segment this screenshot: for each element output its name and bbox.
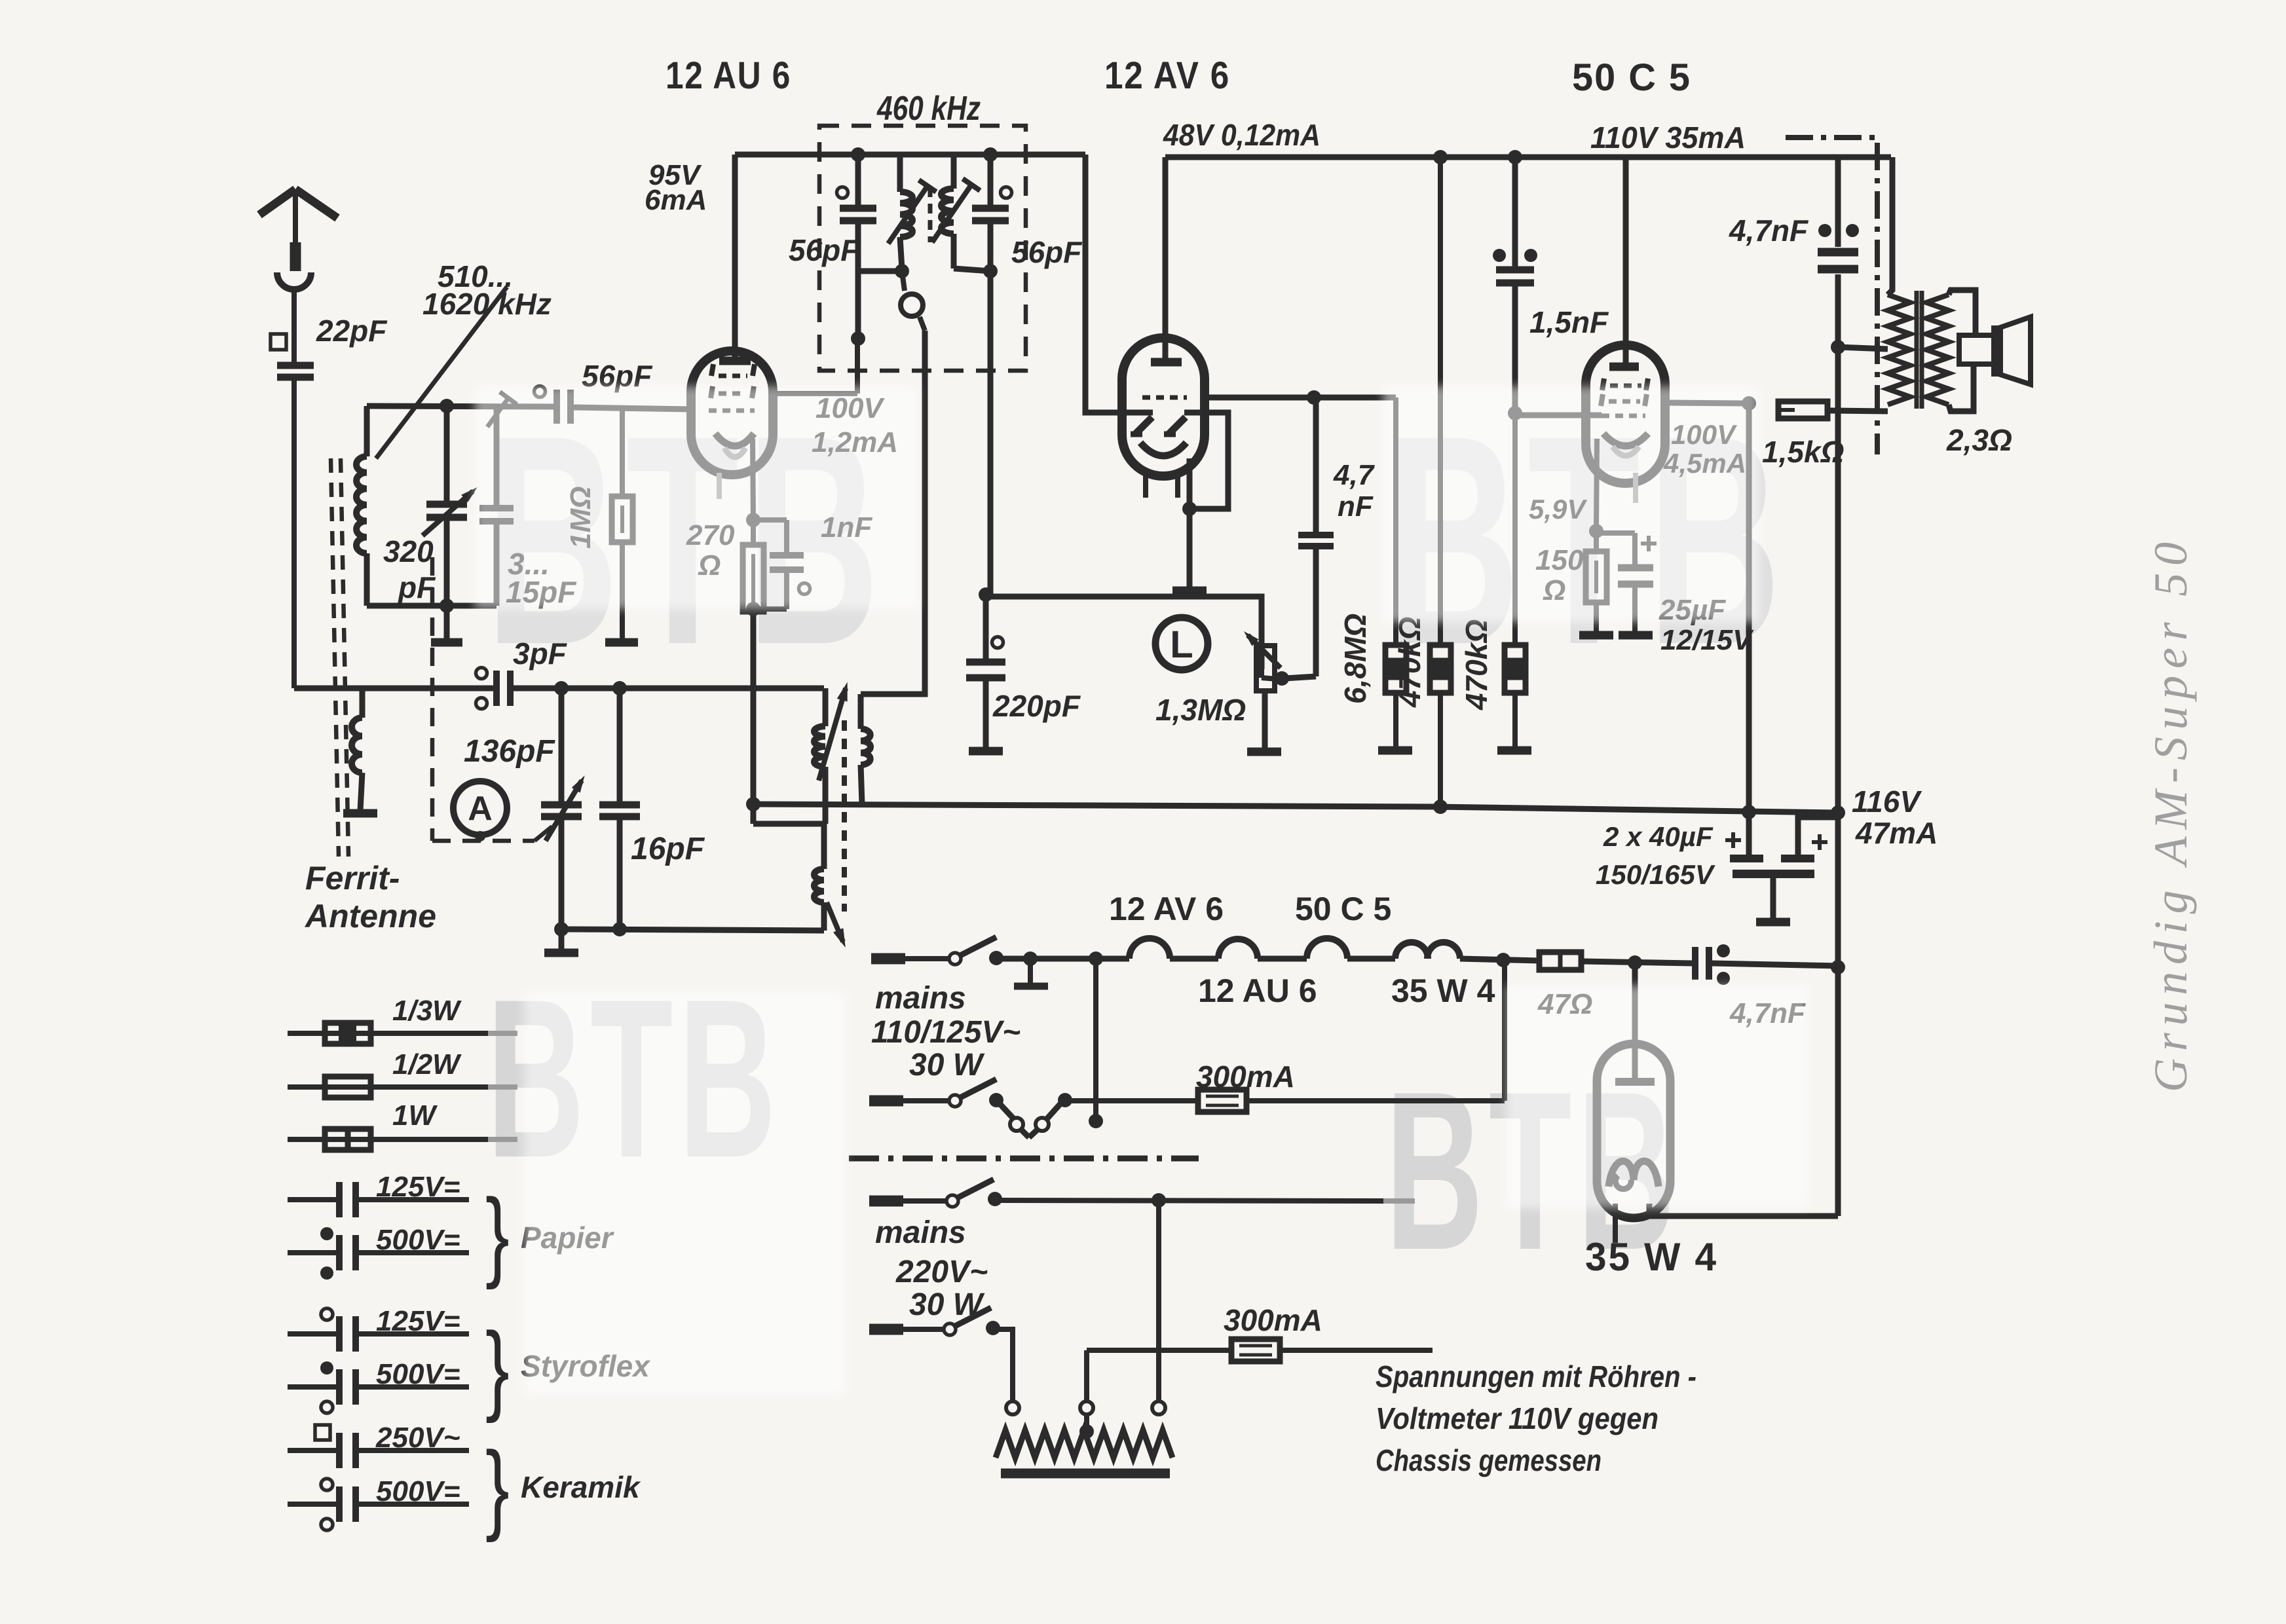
resistor 47 ohm bbox=[1539, 952, 1581, 970]
wire 4,7nF to volume wiper bbox=[1284, 676, 1316, 678]
switch 2 (mains fused) bbox=[869, 1096, 903, 1107]
wire screen to 1,5k feedback bbox=[1665, 403, 1749, 403]
wire AVC bus bbox=[753, 804, 1835, 813]
heater 12AV6 bbox=[1129, 938, 1170, 959]
ground (1M ohm) bbox=[605, 638, 638, 647]
legend capacitor 125V paper bbox=[288, 1197, 337, 1202]
wire mixer cathode to oscillator bbox=[751, 612, 757, 804]
svg-text:220V~: 220V~ bbox=[895, 1255, 988, 1289]
wire cathode to ground bbox=[1187, 458, 1193, 588]
junction (50C5 grid node) bbox=[1508, 406, 1522, 420]
junction (primary tap) bbox=[1831, 340, 1845, 354]
svg-text:Grundig AM-Super 50: Grundig AM-Super 50 bbox=[2145, 539, 2197, 1092]
svg-text:mains: mains bbox=[875, 1215, 966, 1250]
wire oscillator secondary to IF transformer bbox=[861, 331, 925, 694]
svg-text:460 kHz: 460 kHz bbox=[876, 90, 981, 128]
wire IF secondary bottom to detector load bbox=[988, 271, 994, 595]
svg-text:12/15V: 12/15V bbox=[1660, 624, 1754, 656]
ground (220pF) bbox=[969, 747, 1003, 756]
capacitor 16pF bbox=[612, 681, 627, 695]
capacitor 220pF (detector load) bbox=[979, 587, 993, 602]
ground (136pF) bbox=[544, 949, 578, 957]
tube 12AV6 envelope bbox=[1122, 338, 1205, 476]
scan light box bottom-right bbox=[1507, 986, 1808, 1208]
capacitor 4,7nF (tone) bbox=[1835, 157, 1841, 247]
capacitor 4,7nF (rectifier snubber) bbox=[1692, 947, 1698, 980]
legend capacitor 500V paper bbox=[288, 1250, 337, 1255]
svg-text:56pF: 56pF bbox=[1011, 235, 1083, 269]
svg-text:Antenne: Antenne bbox=[304, 898, 436, 934]
ferrite rod (dashed) bbox=[331, 458, 339, 857]
svg-text:1W: 1W bbox=[392, 1099, 438, 1132]
ground (320pF) bbox=[431, 638, 462, 647]
switch 1 (mains) bbox=[949, 953, 961, 965]
svg-text:300mA: 300mA bbox=[1224, 1303, 1322, 1337]
chassis divider dash-dot bbox=[849, 1156, 1199, 1162]
12AV6 heater stubs bbox=[1143, 476, 1148, 498]
wire 50C5 grid bbox=[1515, 413, 1602, 418]
mains terminal stub 1 bbox=[871, 953, 905, 965]
ground (volume pot) bbox=[1247, 748, 1281, 756]
svg-text:L: L bbox=[1170, 623, 1193, 666]
antenna symbol bbox=[259, 189, 295, 215]
adjustment symbol L bbox=[1155, 618, 1208, 670]
scan light box bottom-left bbox=[524, 992, 845, 1395]
watermark letters BTB bottom-left bbox=[487, 952, 782, 1205]
12AU6 heater bbox=[724, 448, 745, 457]
core adjust arrow (IF primary) bbox=[888, 186, 928, 244]
capacitor 3pF bbox=[493, 671, 500, 706]
junction (1,5nF top) bbox=[1508, 150, 1522, 164]
svg-text:300mA: 300mA bbox=[1196, 1060, 1295, 1094]
oscillator feedback coil bbox=[821, 824, 827, 869]
svg-text:35 W 4: 35 W 4 bbox=[1585, 1235, 1718, 1279]
resistor 470k ohm (screen feed) bbox=[1438, 157, 1443, 645]
wire B+ rail (12AU6 plate) bbox=[735, 152, 1085, 158]
svg-text:470kΩ: 470kΩ bbox=[1393, 617, 1427, 708]
svg-text:2,3Ω: 2,3Ω bbox=[1946, 423, 2012, 457]
wire 1,5k to primary bottom bbox=[1827, 411, 1888, 411]
wire RF tank top bbox=[367, 406, 554, 407]
pointer line 510...1620kHz bbox=[376, 287, 507, 458]
svg-text:6,8MΩ: 6,8MΩ bbox=[1338, 614, 1372, 704]
svg-text:110V 35mA: 110V 35mA bbox=[1590, 120, 1746, 155]
junction (chassis tick) bbox=[1023, 951, 1038, 966]
svg-text:220pF: 220pF bbox=[992, 689, 1081, 723]
svg-text:500V=: 500V= bbox=[376, 1475, 460, 1507]
junction (cathode / 270 ohm) bbox=[746, 513, 760, 527]
resistor 150 ohm (output cathode) bbox=[1594, 531, 1599, 551]
scan light box top-left bbox=[475, 386, 917, 609]
trimmer capacitor 3...15pF bbox=[494, 406, 500, 506]
wire fuse line bbox=[1065, 1098, 1198, 1103]
meter symbol A bbox=[453, 781, 507, 835]
fuse 300mA (110V) bbox=[1198, 1090, 1246, 1112]
ground (25uF) bbox=[1619, 631, 1653, 640]
legend resistor 1/3W bbox=[288, 1031, 488, 1036]
mains terminal stub 4 bbox=[869, 1324, 903, 1335]
capacitor 56pF (IF primary) bbox=[837, 187, 848, 198]
ferrite antenna primary coil bbox=[364, 406, 370, 456]
resistor 470k ohm (output grid leak) bbox=[1512, 413, 1518, 645]
core adjust arrow (oscillator) bbox=[819, 688, 846, 781]
wire 12AV6 grid to AVC network bbox=[1205, 395, 1314, 401]
IF transformer core (dashed) bbox=[928, 187, 933, 242]
junction (56pF left top) bbox=[851, 147, 865, 162]
capacitor 1,5nF bbox=[1512, 157, 1518, 267]
tube 35W4 envelope bbox=[1597, 1044, 1670, 1218]
output transformer primary bbox=[1888, 295, 1910, 405]
alignment point A dashed box bbox=[430, 557, 435, 841]
ground (6,8M) bbox=[1378, 747, 1412, 755]
wire pot to ground bbox=[1262, 691, 1268, 749]
svg-text:1/3W: 1/3W bbox=[392, 995, 462, 1027]
legend brace Papier bbox=[485, 1178, 510, 1290]
selector contacts bbox=[1006, 1401, 1019, 1414]
junction (voltage selector feed) bbox=[1089, 951, 1103, 966]
12AU6 grid g2 row (screen) bbox=[711, 386, 713, 398]
legend capacitor 500V ceramic bbox=[288, 1502, 337, 1507]
12AV6 plate bbox=[1163, 157, 1169, 358]
svg-text:48V 0,12mA: 48V 0,12mA bbox=[1163, 118, 1321, 152]
wire oscillator bottom (line B) bbox=[561, 929, 824, 931]
junction (50C5 cathode) bbox=[1589, 524, 1603, 538]
svg-text:}: } bbox=[485, 1431, 510, 1543]
svg-text:4,7: 4,7 bbox=[1333, 459, 1376, 491]
wire heater chain bbox=[996, 956, 1129, 962]
capacitor type marker square (antenna 22pF ceramic) bbox=[271, 334, 286, 350]
svg-text:mains: mains bbox=[875, 981, 966, 1016]
12AU6 grid g1 row (control) bbox=[709, 409, 755, 413]
wire selector mid to fuse line bbox=[1084, 1350, 1089, 1401]
svg-text:110/125V~: 110/125V~ bbox=[871, 1015, 1021, 1050]
dropper resistance element bbox=[1084, 1414, 1089, 1430]
junction (56pF right top) bbox=[983, 147, 998, 162]
35W4 cathode (filament) bbox=[1609, 1161, 1658, 1187]
legend resistor 1W bbox=[288, 1137, 488, 1142]
svg-text:1,5nF: 1,5nF bbox=[1529, 305, 1609, 339]
ground (ferrite secondary) bbox=[343, 809, 377, 818]
wire detector to volume pot bbox=[986, 597, 1262, 669]
svg-text:47mA: 47mA bbox=[1855, 816, 1938, 850]
electrolytic 2x40uF bbox=[1746, 812, 1752, 855]
12AV6 diode plates bbox=[1136, 417, 1152, 434]
50C5 heater bbox=[1613, 447, 1639, 456]
capacitor 4,7nF (detector filter) bbox=[1313, 397, 1319, 532]
junction (470k to AVC bus) bbox=[1433, 800, 1448, 814]
wire 220V upper bbox=[995, 1200, 1383, 1201]
legend capacitor 500V styroflex bbox=[288, 1384, 337, 1390]
svg-text:500V=: 500V= bbox=[376, 1358, 460, 1390]
core adjust arrow (IF secondary) bbox=[932, 185, 971, 242]
svg-text:50 C 5: 50 C 5 bbox=[1295, 891, 1391, 927]
wire IF secondary top to 12AV6 diode bbox=[1085, 155, 1153, 413]
wire to selector left bbox=[993, 1329, 1013, 1401]
capacitor 56pF (mixer grid coupling) bbox=[534, 386, 546, 397]
junction (selector right) bbox=[1152, 1193, 1166, 1208]
legend resistor 1/2W bbox=[288, 1084, 488, 1090]
svg-text:12 AU 6: 12 AU 6 bbox=[1198, 972, 1317, 1009]
junction (rectifier output) bbox=[1831, 960, 1845, 974]
wire RF ground bus (line A) bbox=[294, 686, 496, 692]
fuse 300mA (220V) bbox=[1231, 1339, 1280, 1361]
wire screen grid to 56pF junction bbox=[773, 391, 857, 396]
svg-text:50 C 5: 50 C 5 bbox=[1572, 56, 1691, 99]
12AU6 plate bbox=[732, 155, 738, 357]
svg-text:1,5kΩ: 1,5kΩ bbox=[1762, 435, 1844, 469]
legend capacitor 250V ceramic bbox=[288, 1448, 337, 1453]
junction (screen node) bbox=[1742, 396, 1756, 411]
12AU6 grid g3 row bbox=[711, 364, 713, 376]
capacitor 22pF bbox=[277, 362, 314, 369]
oscillator secondary coil bbox=[858, 694, 864, 729]
svg-text:}: } bbox=[485, 1312, 510, 1424]
junction (470k top) bbox=[1433, 150, 1448, 164]
resistor 6,8M ohm (AVC) bbox=[1393, 397, 1398, 645]
svg-text:2 x 40µF: 2 x 40µF bbox=[1603, 821, 1714, 852]
svg-text:1620 kHz: 1620 kHz bbox=[422, 287, 552, 321]
junction (wiper) bbox=[1275, 671, 1289, 686]
IF transformer dashed box 460kHz bbox=[819, 126, 1026, 371]
wire diode return bbox=[1184, 413, 1228, 509]
50C5 grid g3 row bbox=[1602, 378, 1604, 390]
svg-text:320: 320 bbox=[383, 534, 434, 568]
legend capacitor 125V styroflex bbox=[288, 1331, 337, 1337]
volume potentiometer 1,3M bbox=[1256, 646, 1275, 691]
scan light box top-right bbox=[1383, 386, 1759, 622]
legend brace Styroflex bbox=[485, 1312, 510, 1424]
svg-text:125V=: 125V= bbox=[376, 1171, 460, 1203]
50C5 cathode bbox=[1603, 434, 1648, 446]
svg-text:500V=: 500V= bbox=[376, 1224, 460, 1256]
capacitor 56pF (IF secondary) bbox=[1001, 187, 1012, 198]
svg-text:3pF: 3pF bbox=[513, 637, 568, 671]
wire B+ vertical to rectifier bbox=[1835, 813, 1841, 967]
svg-text:Keramik: Keramik bbox=[521, 1470, 641, 1504]
12AV6 grid row bbox=[1142, 396, 1187, 400]
svg-text:12 AU 6: 12 AU 6 bbox=[665, 54, 791, 97]
junction (116V node) bbox=[1831, 805, 1845, 820]
resistor 270 ohm (cathode) bbox=[751, 520, 756, 545]
svg-text:Spannungen mit Röhren -: Spannungen mit Röhren - bbox=[1376, 1359, 1696, 1393]
oscillator coil primary bbox=[823, 688, 829, 726]
svg-text:12 AV 6: 12 AV 6 bbox=[1104, 54, 1230, 97]
junction (primary bottom) bbox=[895, 264, 909, 278]
ground (elco) bbox=[1756, 918, 1790, 927]
svg-text:Voltmeter 110V gegen: Voltmeter 110V gegen bbox=[1376, 1401, 1658, 1435]
junction (diode line / 4,7nF) bbox=[1307, 390, 1321, 405]
speaker bbox=[1959, 335, 1994, 364]
50C5 plate bbox=[1623, 157, 1629, 363]
wire B+ rail right (12AV6 plate to output) bbox=[1165, 155, 1891, 160]
svg-text:1,3MΩ: 1,3MΩ bbox=[1155, 693, 1246, 727]
capacitor 1nF (cathode bypass) bbox=[753, 517, 787, 523]
wire selector common bbox=[1093, 959, 1098, 1116]
svg-text:150/165V: 150/165V bbox=[1596, 859, 1715, 890]
svg-text:nF: nF bbox=[1338, 490, 1374, 523]
ground (150 ohm) bbox=[1579, 631, 1613, 640]
50C5 grid g2 row (screen) bbox=[1601, 394, 1603, 406]
switch 4 (220V) bbox=[944, 1323, 956, 1335]
wire RF tank bottom bbox=[367, 603, 497, 609]
IF primary coupling loop bbox=[902, 271, 905, 291]
svg-text:12 AV 6: 12 AV 6 bbox=[1109, 891, 1224, 927]
watermark letters BTB top-left bbox=[485, 374, 887, 707]
svg-text:56pF: 56pF bbox=[789, 233, 860, 267]
oscillator coil core (dashed) bbox=[842, 720, 847, 912]
IF transformer secondary winding bbox=[951, 155, 957, 189]
wire screen node to B+ bus bbox=[1746, 403, 1752, 812]
svg-text:470kΩ: 470kΩ bbox=[1459, 619, 1493, 710]
svg-text:}: } bbox=[485, 1178, 510, 1290]
watermark letters BTB bottom-right bbox=[1385, 1044, 1681, 1297]
svg-text:Ferrit-: Ferrit- bbox=[305, 860, 400, 896]
svg-text:250V~: 250V~ bbox=[375, 1422, 460, 1454]
wire to 6,8M bbox=[1314, 395, 1396, 401]
junction (12AV6 cathode) bbox=[1182, 502, 1197, 516]
variable capacitor 136pF (osc padder) bbox=[554, 681, 569, 695]
ferrite antenna secondary coil bbox=[360, 688, 365, 718]
junction (fuse return) bbox=[1496, 953, 1510, 967]
junction (320pF top) bbox=[440, 399, 454, 413]
resistor 1M ohm (grid leak) bbox=[620, 407, 625, 496]
svg-text:35 W 4: 35 W 4 bbox=[1391, 972, 1495, 1009]
switch 3 (220V) bbox=[946, 1195, 958, 1207]
capacitor 25uF (cathode bypass) bbox=[1596, 530, 1635, 536]
ground (12AV6 cathode) bbox=[1172, 587, 1207, 595]
svg-text:116V: 116V bbox=[1852, 784, 1922, 819]
junction (screen grid node) bbox=[851, 331, 865, 346]
50C5 grid g1 row bbox=[1602, 414, 1645, 418]
12AU6 cathode bbox=[715, 434, 754, 446]
svg-text:16pF: 16pF bbox=[631, 832, 705, 866]
wire tap to B+ bbox=[1838, 347, 1888, 349]
junction (35W4 plate) bbox=[1628, 955, 1642, 970]
heater 50C5 bbox=[1307, 938, 1347, 959]
junction (IF secondary bottom) bbox=[983, 264, 998, 278]
wire cathode lead bbox=[753, 439, 753, 520]
svg-text:6mA: 6mA bbox=[645, 184, 707, 216]
voltage selector link bbox=[996, 1100, 1015, 1120]
svg-text:Chassis gemessen: Chassis gemessen bbox=[1376, 1443, 1602, 1477]
chassis boundary dash-dot bbox=[1786, 138, 1877, 454]
svg-text:1/2W: 1/2W bbox=[392, 1048, 462, 1080]
ground (470k) bbox=[1497, 747, 1531, 755]
resistor 1,5k ohm bbox=[1778, 401, 1827, 418]
svg-text:A: A bbox=[468, 790, 493, 828]
junction (270 ohm bottom) bbox=[746, 602, 760, 616]
junction (B+ bus / elco) bbox=[1742, 805, 1756, 819]
svg-text:4,7nF: 4,7nF bbox=[1729, 213, 1809, 248]
35W4 leads bbox=[1613, 1204, 1618, 1243]
output transformer secondary bbox=[1926, 295, 1949, 405]
svg-text:30 W: 30 W bbox=[909, 1048, 985, 1082]
tube 50C5 envelope bbox=[1586, 345, 1665, 422]
variable capacitor 320pF (tuning) bbox=[444, 406, 450, 502]
12AV6 cathode bbox=[1140, 443, 1186, 456]
heater 35W4 (tapped) bbox=[1395, 942, 1428, 959]
svg-text:22pF: 22pF bbox=[316, 314, 388, 348]
tube 12AU6 envelope bbox=[691, 351, 773, 417]
svg-text:136pF: 136pF bbox=[464, 734, 555, 769]
junction (AVC bus / cathode) bbox=[746, 797, 760, 811]
wire 50C5 cathode lead bbox=[1596, 439, 1597, 531]
wire grid line to 12AU6 bbox=[571, 407, 692, 409]
junction (320pF bottom) bbox=[440, 599, 454, 613]
output transformer core bbox=[1915, 291, 1919, 409]
mains terminal stub 3 bbox=[869, 1196, 903, 1207]
IF transformer primary winding bbox=[897, 155, 903, 192]
heater 12AU6 bbox=[1218, 939, 1258, 959]
35W4 plate bbox=[1632, 963, 1638, 1078]
svg-text:125V=: 125V= bbox=[376, 1305, 460, 1337]
legend brace Keramik bbox=[485, 1431, 510, 1543]
watermark letters BTB top-right bbox=[1387, 374, 1788, 707]
